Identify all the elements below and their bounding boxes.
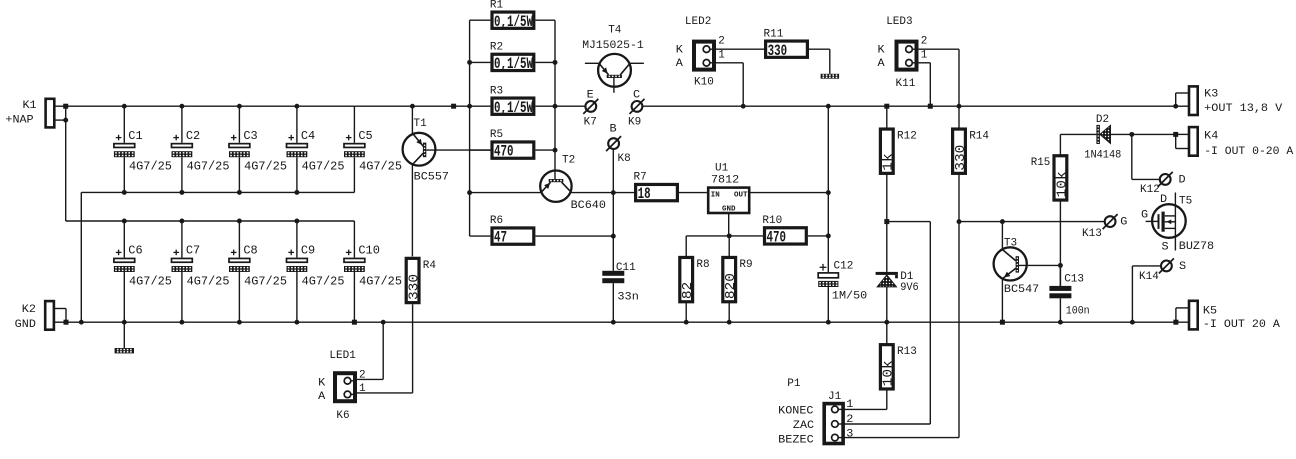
svg-text:2: 2 (359, 369, 366, 381)
svg-text:K1: K1 (23, 100, 37, 112)
svg-text:330: 330 (768, 42, 788, 60)
svg-text:4G7/25: 4G7/25 (129, 274, 172, 288)
svg-text:10k: 10k (1055, 171, 1070, 197)
svg-text:R7: R7 (634, 172, 647, 184)
svg-text:BC547: BC547 (1004, 284, 1039, 296)
svg-text:C7: C7 (186, 244, 200, 258)
svg-text:R15: R15 (1031, 157, 1050, 169)
svg-text:BUZ78: BUZ78 (1179, 241, 1214, 253)
svg-text:R6: R6 (490, 215, 503, 227)
svg-text:+OUT 13,8 V: +OUT 13,8 V (1204, 103, 1282, 115)
svg-text:4G7/25: 4G7/25 (244, 274, 287, 288)
svg-text:C8: C8 (243, 244, 257, 258)
svg-text:A: A (676, 58, 683, 70)
svg-text:1k: 1k (882, 153, 897, 170)
svg-text:2: 2 (718, 36, 725, 48)
svg-text:1: 1 (718, 50, 725, 62)
svg-text:C12: C12 (834, 261, 854, 273)
svg-text:U1: U1 (715, 162, 729, 174)
svg-text:K11: K11 (896, 78, 916, 90)
svg-text:R1: R1 (490, 0, 504, 11)
svg-text:82: 82 (681, 282, 696, 299)
svg-text:18: 18 (638, 185, 651, 203)
svg-text:D2: D2 (1096, 114, 1109, 126)
svg-text:A: A (878, 58, 885, 70)
svg-text:G: G (1120, 217, 1127, 229)
svg-text:LED1: LED1 (329, 350, 356, 362)
svg-text:47: 47 (494, 229, 507, 247)
svg-text:1M/50: 1M/50 (832, 291, 867, 303)
svg-text:1: 1 (921, 50, 928, 62)
svg-text:K5: K5 (1203, 306, 1217, 318)
svg-text:R4: R4 (423, 260, 437, 272)
svg-text:R8: R8 (696, 259, 709, 271)
svg-text:LED3: LED3 (886, 16, 912, 28)
svg-text:C3: C3 (243, 129, 257, 143)
svg-text:100n: 100n (1066, 305, 1090, 317)
svg-text:C11: C11 (616, 262, 636, 274)
svg-text:K12: K12 (1140, 184, 1160, 196)
svg-text:K14: K14 (1139, 271, 1159, 283)
svg-text:4G7/25: 4G7/25 (244, 160, 287, 174)
svg-text:C4: C4 (301, 129, 315, 143)
svg-text:K2: K2 (22, 304, 36, 316)
svg-text:BC640: BC640 (571, 200, 606, 212)
svg-text:R10: R10 (762, 215, 782, 227)
svg-text:K: K (878, 45, 885, 57)
svg-text:0,1/5W: 0,1/5W (494, 99, 533, 117)
svg-text:470: 470 (767, 229, 787, 247)
svg-text:C: C (633, 90, 640, 102)
svg-text:S: S (1179, 261, 1186, 273)
svg-text:BEZEC: BEZEC (778, 435, 814, 447)
svg-text:P1: P1 (787, 378, 801, 390)
svg-text:ZAC: ZAC (793, 420, 814, 432)
svg-text:K: K (318, 377, 325, 389)
svg-text:4G7/25: 4G7/25 (129, 160, 172, 174)
svg-text:-I OUT 20 A: -I OUT 20 A (1203, 319, 1280, 331)
svg-text:K: K (676, 45, 683, 57)
svg-text:R5: R5 (490, 129, 503, 141)
svg-text:1N4148: 1N4148 (1084, 150, 1121, 162)
svg-text:2: 2 (921, 36, 928, 48)
svg-text:K3: K3 (1204, 89, 1218, 101)
svg-text:LED2: LED2 (685, 16, 711, 28)
svg-text:K8: K8 (618, 153, 631, 165)
svg-text:J1: J1 (828, 391, 842, 403)
svg-text:4G7/25: 4G7/25 (302, 160, 345, 174)
svg-text:3: 3 (846, 428, 853, 440)
svg-text:G: G (1141, 210, 1148, 222)
svg-text:0,1/5W: 0,1/5W (494, 55, 533, 73)
svg-text:R2: R2 (490, 41, 503, 53)
svg-text:K13: K13 (1082, 228, 1102, 240)
svg-text:C10: C10 (358, 244, 380, 258)
svg-text:4G7/25: 4G7/25 (359, 160, 402, 174)
svg-text:K4: K4 (1204, 131, 1218, 143)
svg-text:K10: K10 (694, 77, 714, 89)
svg-text:C9: C9 (301, 244, 315, 258)
svg-text:4G7/25: 4G7/25 (302, 274, 345, 288)
svg-text:0,1/5W: 0,1/5W (494, 13, 533, 31)
svg-text:4G7/25: 4G7/25 (359, 274, 402, 288)
svg-text:C5: C5 (358, 129, 372, 143)
svg-text:C2: C2 (186, 129, 200, 143)
svg-text:D: D (1179, 174, 1186, 186)
svg-text:820: 820 (724, 273, 739, 299)
svg-text:1: 1 (359, 383, 366, 395)
svg-text:D: D (1160, 194, 1167, 206)
svg-text:330: 330 (408, 274, 423, 300)
svg-text:T4: T4 (608, 24, 622, 36)
svg-text:4G7/25: 4G7/25 (187, 160, 230, 174)
svg-text:7812: 7812 (711, 174, 739, 186)
svg-text:R14: R14 (969, 130, 989, 142)
svg-text:1: 1 (846, 399, 853, 411)
svg-text:R3: R3 (490, 85, 503, 97)
svg-text:4G7/25: 4G7/25 (187, 274, 230, 288)
svg-text:+NAP: +NAP (5, 114, 33, 126)
svg-text:T2: T2 (562, 155, 575, 167)
svg-text:-I OUT 0-20 A: -I OUT 0-20 A (1204, 146, 1293, 158)
svg-text:330: 330 (954, 145, 969, 171)
svg-text:R12: R12 (897, 130, 917, 142)
svg-text:OUT: OUT (734, 192, 748, 200)
svg-text:B: B (610, 124, 617, 136)
svg-text:K9: K9 (628, 117, 641, 129)
svg-text:KONEC: KONEC (778, 405, 813, 417)
svg-text:T1: T1 (414, 118, 428, 130)
svg-text:S: S (1162, 241, 1169, 253)
svg-text:T5: T5 (1179, 196, 1192, 208)
svg-text:R11: R11 (764, 28, 784, 40)
svg-text:C13: C13 (1064, 273, 1084, 285)
svg-text:T3: T3 (1004, 237, 1017, 249)
svg-text:E: E (587, 90, 594, 102)
svg-text:K6: K6 (336, 410, 349, 422)
svg-text:R13: R13 (897, 346, 917, 358)
svg-text:BC557: BC557 (414, 172, 449, 184)
svg-text:GND: GND (15, 319, 36, 331)
svg-text:33n: 33n (617, 291, 639, 303)
svg-text:K7: K7 (584, 117, 597, 129)
svg-text:MJ15025-1: MJ15025-1 (582, 40, 644, 52)
svg-text:IN: IN (711, 192, 720, 200)
svg-text:R9: R9 (739, 259, 752, 271)
svg-text:10k: 10k (882, 360, 897, 386)
svg-text:C1: C1 (128, 129, 142, 143)
svg-text:A: A (318, 391, 325, 403)
svg-text:470: 470 (494, 143, 514, 161)
svg-text:GND: GND (722, 205, 736, 213)
svg-text:9V6: 9V6 (900, 282, 919, 294)
svg-text:C6: C6 (128, 244, 142, 258)
